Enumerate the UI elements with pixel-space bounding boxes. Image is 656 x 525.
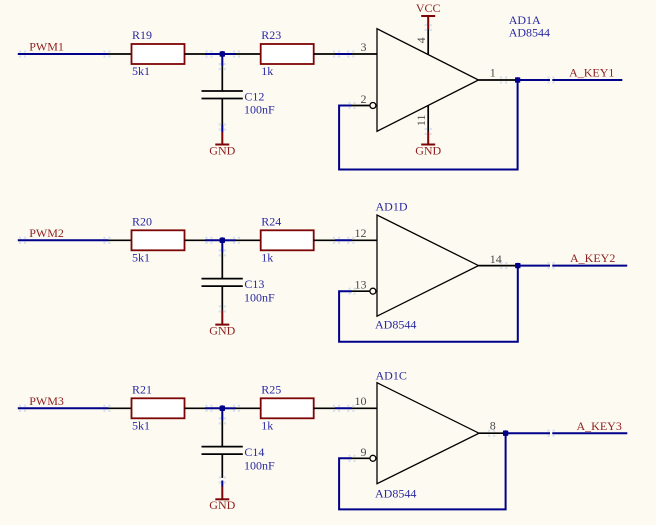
port PWM2 [29, 226, 64, 240]
op-amp AD1A (AD8544) [377, 29, 479, 132]
svg-text:R21: R21 [132, 383, 152, 397]
pin top of C13 [221, 253, 223, 279]
wire markers [19, 50, 555, 130]
pin number 11 [414, 115, 428, 127]
svg-text:5k1: 5k1 [132, 64, 150, 78]
pin top of C12 [221, 66, 223, 91]
wire markers [19, 237, 555, 313]
svg-text:R20: R20 [132, 215, 152, 229]
pin - input [352, 290, 369, 292]
wire node to R24 [222, 239, 236, 241]
svg-text:9: 9 [361, 445, 367, 459]
pin right of R24 [314, 239, 335, 241]
svg-text:AD1D: AD1D [376, 200, 408, 214]
svg-text:GND: GND [209, 143, 235, 157]
wire R21 to node [205, 407, 222, 409]
op-amp AD1C (AD8544) [377, 383, 479, 484]
svg-text:GND: GND [415, 143, 441, 157]
pin output [479, 432, 504, 434]
svg-text:C12: C12 [244, 89, 264, 103]
wire PWM2 net [18, 239, 109, 241]
ground GND [209, 132, 235, 157]
pin bottom of C13 [221, 286, 223, 311]
pin + input [352, 407, 377, 409]
svg-text:GND: GND [209, 324, 235, 338]
svg-text:AD1C: AD1C [376, 369, 407, 383]
svg-text:R23: R23 [261, 28, 281, 42]
svg-text:1k: 1k [261, 64, 273, 78]
svg-text:13: 13 [355, 277, 367, 291]
resistor R23 [261, 28, 314, 78]
svg-text:AD8544: AD8544 [509, 26, 550, 40]
svg-text:11: 11 [414, 115, 428, 127]
port A_KEY1 [569, 66, 614, 80]
pin bottom of C14 [221, 454, 223, 478]
part AD8544 [375, 318, 416, 332]
pin number 12 [355, 226, 367, 240]
wire to ground [221, 481, 223, 487]
svg-text:A_KEY1: A_KEY1 [569, 66, 614, 80]
svg-text:A_KEY3: A_KEY3 [577, 419, 622, 433]
pin number 10 [355, 394, 367, 408]
wire node to R23 [222, 53, 236, 55]
svg-text:100nF: 100nF [244, 103, 275, 117]
svg-text:A_KEY2: A_KEY2 [570, 251, 615, 265]
pin output [479, 79, 517, 81]
capacitor C13 [202, 277, 276, 304]
wire to ground [221, 125, 223, 132]
wire node to C13 [221, 240, 223, 252]
svg-text:2: 2 [361, 92, 367, 106]
svg-text:5k1: 5k1 [132, 419, 150, 433]
wire R24 to op-amp [335, 239, 352, 241]
pin top of C14 [221, 421, 223, 447]
op-amp AD1D (AD8544) [377, 215, 479, 316]
part AD8544 [375, 487, 416, 501]
ground GND [209, 311, 235, 338]
pin left of R23 [236, 53, 261, 55]
pin 11 (V-) [427, 105, 429, 131]
wire R25 to op-amp [335, 407, 352, 409]
port A_KEY2 [570, 251, 615, 265]
pin left of R20 [109, 239, 132, 241]
pin bottom of C12 [221, 99, 223, 126]
pin right of R19 [185, 53, 206, 55]
wire output to A_KEY3 [506, 432, 628, 434]
resistor R21 [132, 383, 185, 433]
resistor R20 [132, 215, 185, 265]
pin left of R19 [109, 53, 132, 55]
pin output [479, 265, 517, 267]
pin number 4 [414, 37, 428, 43]
pin left of R24 [236, 239, 261, 241]
svg-text:3: 3 [361, 40, 367, 54]
designator AD1A [509, 13, 541, 27]
svg-text:PWM3: PWM3 [29, 394, 64, 408]
designator AD1D [376, 200, 408, 214]
wire node to C14 [221, 408, 223, 420]
inverting bubble [370, 455, 376, 461]
power pin markers [425, 24, 432, 135]
svg-text:GND: GND [209, 498, 235, 512]
resistor R24 [261, 215, 314, 265]
pin number 1 [490, 66, 496, 80]
ground GND [209, 487, 235, 513]
power VCC [416, 1, 441, 29]
wire PWM3 net [18, 407, 109, 409]
pin right of R25 [314, 407, 335, 409]
pin number 2 [361, 92, 367, 106]
wire feedback loop [339, 266, 518, 342]
svg-text:1k: 1k [261, 251, 273, 265]
svg-text:R19: R19 [132, 28, 152, 42]
svg-text:AD8544: AD8544 [375, 318, 416, 332]
pin - input [352, 105, 369, 107]
wire output to A_KEY1 [518, 79, 623, 81]
svg-text:PWM2: PWM2 [29, 226, 64, 240]
resistor R25 [261, 383, 314, 433]
svg-text:R24: R24 [261, 215, 281, 229]
pin right of R20 [185, 239, 206, 241]
pin number 9 [361, 445, 367, 459]
svg-text:R25: R25 [261, 383, 281, 397]
pin number 14 [490, 252, 502, 266]
pin number 3 [361, 40, 367, 54]
capacitor C14 [202, 445, 276, 472]
pin - input [352, 457, 369, 459]
svg-text:PWM1: PWM1 [29, 40, 64, 54]
junction output node [503, 430, 509, 436]
wire node to R25 [222, 407, 236, 409]
svg-text:12: 12 [355, 226, 367, 240]
wire R19 to node [205, 53, 222, 55]
resistor R19 [132, 28, 185, 78]
junction node [219, 237, 225, 243]
port A_KEY3 [577, 419, 622, 433]
wire markers [19, 405, 555, 484]
junction node [219, 51, 225, 57]
svg-text:4: 4 [414, 37, 428, 43]
svg-text:100nF: 100nF [244, 290, 275, 304]
junction output node [515, 263, 521, 269]
pin number 13 [355, 277, 367, 291]
wire R20 to node [205, 239, 222, 241]
capacitor C12 [202, 89, 276, 116]
designator AD1C [376, 369, 407, 383]
pin 4 (V+) [427, 29, 429, 55]
ground GND op-amp [415, 132, 441, 158]
wire node to C12 [221, 54, 223, 66]
svg-text:100nF: 100nF [244, 458, 275, 472]
pin right of R21 [185, 407, 206, 409]
wire feedback loop [339, 433, 506, 509]
svg-text:10: 10 [355, 394, 367, 408]
svg-text:1k: 1k [261, 419, 273, 433]
svg-text:C14: C14 [244, 445, 264, 459]
svg-text:1: 1 [490, 66, 496, 80]
wire PWM1 net [18, 53, 109, 55]
pin number 8 [490, 418, 496, 432]
wire feedback loop [339, 80, 517, 170]
wire output to A_KEY2 [518, 265, 627, 267]
inverting bubble [370, 288, 376, 294]
svg-text:C13: C13 [244, 277, 264, 291]
pin right of R23 [314, 53, 335, 55]
junction node [219, 405, 225, 411]
pin + input [352, 239, 377, 241]
junction output node [515, 77, 521, 83]
part AD8544 [509, 26, 550, 40]
svg-text:VCC: VCC [416, 1, 441, 15]
pin left of R25 [236, 407, 261, 409]
svg-text:AD8544: AD8544 [375, 487, 416, 501]
wire R23 to op-amp [335, 53, 352, 55]
svg-text:5k1: 5k1 [132, 251, 150, 265]
inverting bubble [370, 103, 376, 109]
port PWM1 [29, 40, 64, 54]
pin + input [352, 53, 377, 55]
svg-text:14: 14 [490, 252, 502, 266]
port PWM3 [29, 394, 64, 408]
pin left of R21 [109, 407, 132, 409]
